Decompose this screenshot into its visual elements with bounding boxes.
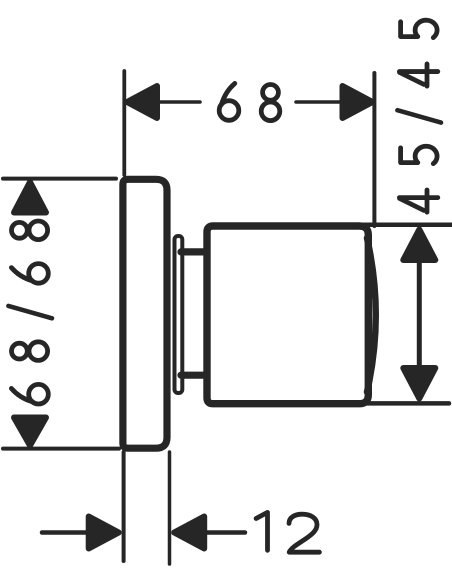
extension line 68 right [372,73,376,226]
arrowhead 12 left-pointing [174,517,204,549]
sleeve [175,236,183,393]
dim text 68 [219,83,280,120]
extension line 12 left [122,452,126,561]
handle (side profile) [207,226,368,404]
extension line 45 top [362,222,452,227]
stem [181,252,207,375]
dim line 68 right segment [296,100,341,104]
dim text 45/45 [397,20,441,212]
dim line 68 left segment [158,100,200,104]
arrowhead 68/68 down [14,418,46,446]
extension line 68/68 top [3,177,116,181]
dim text 12 [256,512,319,552]
arrowhead 68 right [343,86,373,118]
extension line 68/68 bottom [3,447,119,451]
arrowhead 45 down [403,368,435,399]
dim tail 12 left [42,530,88,535]
extension line 68 left [122,71,126,175]
arrowhead 68 left [127,86,157,118]
extension line 12 right [168,452,172,564]
dim text 68/68 [8,221,52,404]
escutcheon plate (side profile) [123,179,167,448]
dim line 45 [417,259,422,370]
arrowhead 45 up [403,230,435,261]
handle front arc [367,238,376,392]
dim tail 12 right [204,530,245,535]
extension line 45 bottom [366,401,449,406]
arrowhead 68/68 up [14,182,46,213]
arrowhead 12 right-pointing [89,517,119,549]
